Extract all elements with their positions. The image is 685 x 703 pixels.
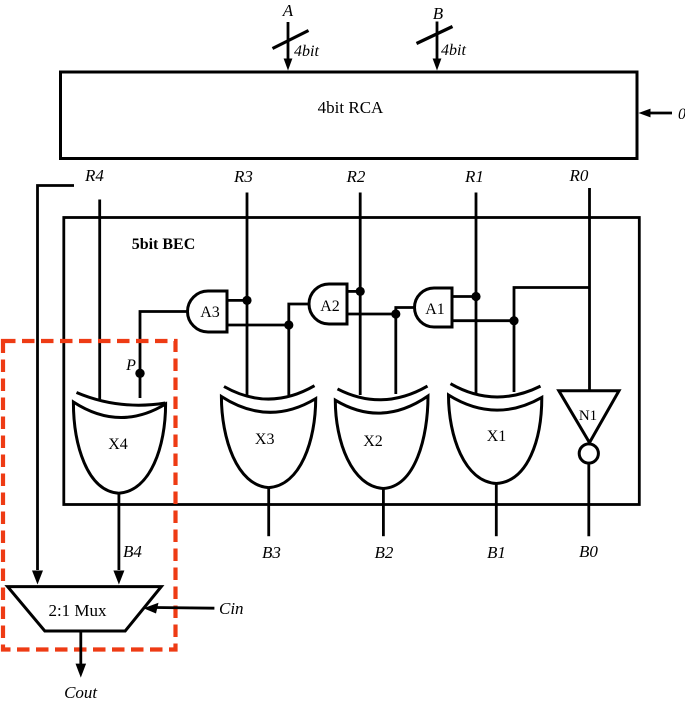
wire B2 xyxy=(382,488,385,536)
wire A3 input2 from A2 xyxy=(227,324,289,327)
svg-text:A2: A2 xyxy=(320,298,340,315)
wire B0 xyxy=(587,463,590,536)
svg-text:X3: X3 xyxy=(255,431,275,448)
svg-text:X2: X2 xyxy=(363,433,383,450)
junction A1-R1 xyxy=(471,292,480,301)
svg-text:R4: R4 xyxy=(84,166,104,185)
wire A1 output to X2 xyxy=(396,308,415,395)
inverter N1 xyxy=(559,391,619,443)
wire A2 input1 from R2 xyxy=(347,290,360,293)
svg-text:R2: R2 xyxy=(346,167,366,186)
wire B4 to mux xyxy=(118,493,121,570)
svg-text:4bit: 4bit xyxy=(441,42,466,59)
wire input A arrow xyxy=(287,22,290,60)
wire B3 xyxy=(267,488,270,537)
svg-text:B0: B0 xyxy=(579,542,598,561)
junction A2out-A3 xyxy=(284,320,293,329)
xor gate X3 xyxy=(224,386,315,399)
5bit BEC box xyxy=(64,218,640,505)
svg-text:5bit BEC: 5bit BEC xyxy=(132,236,196,253)
bus slash B xyxy=(417,27,453,44)
junction R0-A1 xyxy=(509,316,518,325)
Cin arrow xyxy=(155,606,214,610)
junction A1out-A2 xyxy=(391,309,400,318)
svg-text:N1: N1 xyxy=(579,408,597,424)
svg-text:A1: A1 xyxy=(425,301,445,318)
svg-text:A3: A3 xyxy=(200,304,220,321)
svg-text:X4: X4 xyxy=(108,436,128,453)
dashed highlight box xyxy=(3,341,176,650)
svg-text:R3: R3 xyxy=(233,167,253,186)
junction A3-R3 xyxy=(242,296,251,305)
junction A2-R2 xyxy=(356,287,365,296)
4bit RCA block xyxy=(61,72,638,159)
wire A3 output to X4 xyxy=(140,312,189,399)
xor gate X2 xyxy=(338,386,428,400)
svg-text:B: B xyxy=(433,4,444,23)
svg-text:B1: B1 xyxy=(487,543,506,562)
inverter bubble xyxy=(579,444,598,463)
wire R1 xyxy=(475,193,478,394)
svg-text:B4: B4 xyxy=(123,542,142,561)
xor gate X1 xyxy=(451,384,541,397)
wire R0 xyxy=(588,188,591,391)
and gate A1 xyxy=(415,288,453,327)
svg-text:0: 0 xyxy=(678,106,685,123)
svg-text:Cout: Cout xyxy=(64,683,98,702)
wire R4 xyxy=(98,200,101,400)
svg-text:R1: R1 xyxy=(464,167,484,186)
svg-text:R0: R0 xyxy=(569,166,589,185)
carry-in 0 arrow xyxy=(648,112,672,115)
wire R3 xyxy=(246,193,249,396)
svg-text:X1: X1 xyxy=(487,428,507,445)
svg-text:4bit: 4bit xyxy=(294,43,319,60)
wire A1 input2 from R0 xyxy=(452,319,514,322)
svg-text:Cin: Cin xyxy=(219,599,244,618)
svg-text:A: A xyxy=(282,1,294,20)
svg-text:2:1 Mux: 2:1 Mux xyxy=(48,601,107,620)
wire A3 input1 from R3 xyxy=(227,299,247,302)
wire A2 input2 from A1 xyxy=(347,313,396,316)
2:1 mux xyxy=(8,587,162,631)
and gate A3 xyxy=(188,291,228,332)
svg-text:B3: B3 xyxy=(262,543,281,562)
wire A1 input1 from R1 xyxy=(452,295,476,298)
wire input B arrow xyxy=(436,22,439,61)
svg-text:4bit RCA: 4bit RCA xyxy=(318,98,384,117)
xor gate X4 xyxy=(77,393,166,406)
node P xyxy=(135,369,144,378)
wire Cout xyxy=(79,631,82,664)
svg-text:B2: B2 xyxy=(375,543,394,562)
wire A2 output to X3 xyxy=(289,304,310,395)
wire B1 xyxy=(495,483,498,536)
and gate A2 xyxy=(309,284,347,324)
wire R2 xyxy=(359,193,362,396)
wire R0 branch to X1 xyxy=(514,288,590,393)
wire R4 branch to mux xyxy=(38,186,75,571)
svg-text:P: P xyxy=(125,357,136,374)
bus slash A xyxy=(273,31,309,49)
